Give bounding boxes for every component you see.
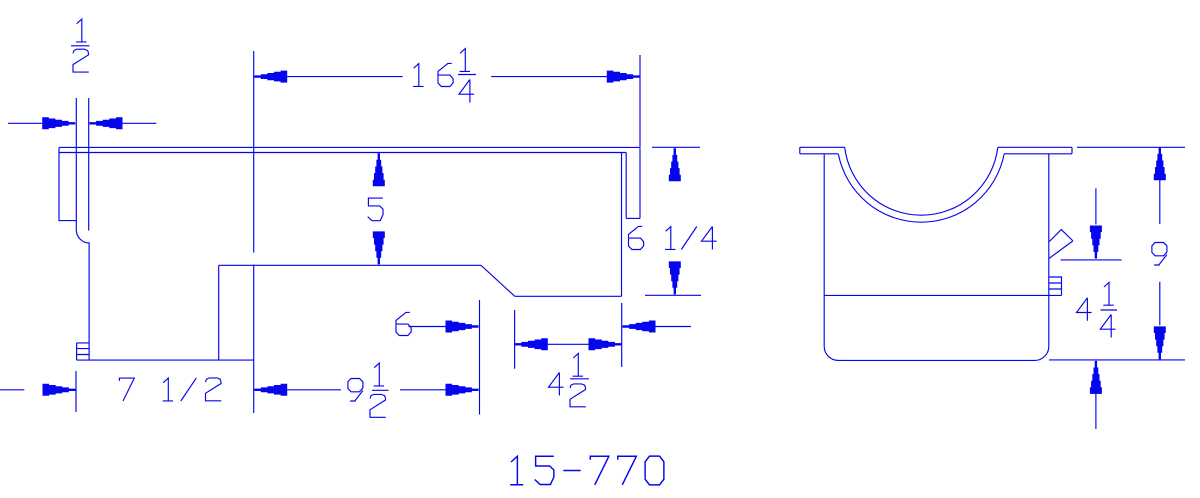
dim 9 1/2: right arrow — [446, 384, 479, 396]
dim 6: right dim line — [655, 326, 692, 328]
dim 16 1/4: left dim line — [286, 76, 402, 78]
dim 9: lower stem — [1159, 282, 1161, 326]
dim 16 1/4: left extension line — [253, 51, 255, 413]
dim 9: down arrow — [1154, 326, 1166, 359]
dim 4 1/4: up arrow — [1090, 361, 1102, 394]
left view: sump step wall — [218, 265, 220, 360]
dim 1/2: left leader line — [8, 122, 42, 124]
dim 16 1/4: text 16 — [413, 63, 453, 86]
dim 5: down arrow — [373, 231, 385, 264]
title: part number 15-770 — [510, 456, 664, 485]
right view: drain plug boss — [1049, 277, 1062, 295]
dim 1/2: right extension line — [88, 98, 90, 231]
dim 1/2: text fraction 1 over 2 — [71, 19, 90, 72]
dim 6: right arrow — [623, 321, 656, 333]
left view: rear lip outer line — [639, 147, 641, 218]
dim 4 1/2: text 4 1/2 — [549, 353, 590, 406]
left view: front lip (left end profile) — [59, 147, 76, 220]
dim 9: bottom reference line — [1049, 359, 1185, 361]
right view: recess outer arc — [838, 154, 1004, 222]
right view: left wall — [823, 154, 825, 347]
left view: shallow bottom — [219, 264, 481, 266]
dim 5: text — [368, 198, 383, 221]
dim 4 1/4: upper stem — [1095, 188, 1097, 224]
dim 4 1/2: dim line — [547, 343, 590, 345]
dim 16 1/4: left arrow — [254, 71, 287, 83]
dim 16 1/4: right arrow — [607, 71, 640, 83]
dim 9 1/2: right extension line — [479, 300, 481, 415]
dim 4 1/4: reference line — [1061, 259, 1122, 261]
dim 7 1/2: left arrow — [43, 384, 76, 396]
right view: interior level line — [824, 294, 1061, 296]
dim 4 1/2: left extension line — [514, 310, 516, 369]
dim 6 1/4: top reference line — [652, 146, 700, 148]
dim 16 1/4: text fraction 1/4 — [458, 49, 476, 103]
dim 9 1/2: left dim line — [286, 389, 341, 391]
left view: rear lip inner line — [625, 153, 627, 219]
right view: recess inner arc — [845, 147, 998, 215]
dim 9: text — [1152, 243, 1167, 266]
dim 7 1/2: text 7 1/2 — [119, 378, 221, 401]
dim 4 1/4: text 4 1/4 — [1077, 282, 1118, 337]
left view: pan top rail upper line — [59, 146, 640, 148]
dim 6: left arrow — [446, 321, 479, 333]
left view: rear shallow bottom — [515, 295, 622, 297]
left view: rear wall — [621, 153, 623, 297]
left view: ramp to rear bottom — [481, 265, 515, 296]
dim 4 1/2: right extension line — [621, 303, 623, 367]
right view: right flange — [998, 147, 1072, 154]
dim 1/2: left extension line — [75, 98, 77, 230]
dim 4 1/4: down arrow — [1090, 226, 1102, 259]
right view: left flange — [800, 147, 845, 154]
dim 4 1/4: lower stem — [1095, 392, 1097, 429]
right view: dipstick tube — [1049, 230, 1073, 259]
dim 9 1/2: left arrow — [254, 384, 287, 396]
dim 6 1/4: down arrow — [669, 261, 681, 294]
dim 1/2: right arrow — [90, 117, 123, 129]
dim 9: up arrow — [1154, 147, 1166, 180]
right view: bottom with rounded corners — [824, 347, 1049, 361]
dim 9 1/2: text 9 1/2 — [348, 363, 389, 417]
dim 1/2: left arrow — [42, 117, 75, 129]
dim 4 1/2: right arrow — [589, 338, 622, 350]
left view: deep sump bottom — [77, 359, 254, 361]
right view: right wall — [1048, 154, 1050, 347]
dim 16 1/4: right extension line — [639, 55, 641, 147]
left view: pan top rail lower line — [59, 152, 626, 154]
dim 6: left dim line — [409, 326, 447, 328]
dim 9: top reference line — [1077, 146, 1185, 148]
dim 5: up arrow — [373, 153, 385, 186]
dim 9: upper stem — [1159, 179, 1161, 225]
dim 6 1/4: up arrow — [669, 148, 681, 181]
dim 1/2: right leader line — [121, 122, 156, 124]
dim 6: text — [396, 312, 411, 335]
dim 16 1/4: right dim line — [491, 76, 608, 78]
dim 6 1/4: text 6 1/4 — [629, 226, 717, 249]
dim 6 1/4: bottom reference line — [645, 294, 701, 296]
dim 9 1/2: right dim line — [400, 389, 447, 391]
dim 7 1/2: left tick extension — [75, 371, 77, 412]
left view: rear lip bottom — [626, 217, 640, 219]
left view: front wall curve and wall down to sump bottom — [76, 230, 89, 361]
left view: drain plug boss — [77, 343, 90, 360]
dim 4 1/2: left arrow — [515, 338, 548, 350]
dim 7 1/2: left leader line — [0, 389, 24, 391]
